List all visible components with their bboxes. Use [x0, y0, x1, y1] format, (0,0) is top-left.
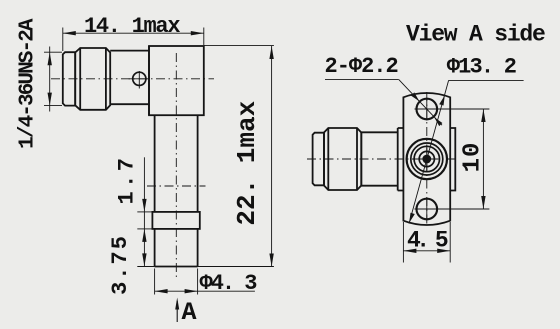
- dim 22.1max arrows: [269, 46, 273, 267]
- flange outline: [403, 93, 450, 225]
- svg-text:14. 1max: 14. 1max: [84, 14, 180, 39]
- dim 14.1max line: [63, 32, 204, 34]
- centerline horizontal axis left view: [51, 78, 214, 80]
- dim 22.1max extension bottom: [198, 266, 274, 268]
- svg-text:Φ13. 2: Φ13. 2: [447, 55, 516, 80]
- svg-text:2-Φ2.2: 2-Φ2.2: [325, 54, 398, 79]
- centerline tube cross: [147, 185, 206, 187]
- dim ring ext bottom: [137, 228, 152, 230]
- coax crosshair: [415, 148, 439, 172]
- centerline vertical axis flange: [426, 92, 428, 227]
- right tab behind flange: [450, 128, 455, 191]
- svg-text:1/4-36UNS-2A: 1/4-36UNS-2A: [17, 18, 40, 149]
- side cap: [313, 133, 324, 186]
- set screw crosshair: [129, 71, 151, 89]
- dim 22.1max line: [271, 46, 273, 267]
- svg-text:22. 1max: 22. 1max: [232, 101, 262, 226]
- dim 10 line: [482, 109, 484, 209]
- A view arrow: [176, 301, 178, 322]
- dim arrows 1.7 3.75: [142, 199, 146, 267]
- tube right edge: [197, 115, 199, 212]
- nut chamfer line right: [105, 48, 107, 110]
- dim 14.1max arrows: [63, 31, 204, 35]
- dim 22.1max extension top: [204, 44, 274, 46]
- left tab behind flange: [398, 128, 404, 191]
- dim phi4.3 arrows: [155, 289, 198, 293]
- dim thread extension top: [44, 51, 62, 53]
- right angle block: [149, 46, 204, 115]
- dim 14.1max extension left: [62, 28, 64, 52]
- tube lower left edge: [154, 229, 156, 267]
- coax circles: [407, 139, 447, 179]
- dim 4.5 arrows: [403, 249, 450, 253]
- dim phi4.3 line: [155, 290, 255, 292]
- set screw circle: [133, 72, 146, 85]
- centerline horizontal axis right view: [307, 158, 458, 160]
- svg-text:1.7: 1.7: [115, 155, 140, 205]
- side nut chamfer lines: [328, 128, 357, 190]
- hole crosshair bottom: [415, 198, 490, 221]
- mounting hole bottom: [417, 199, 438, 220]
- coax center pin: [422, 155, 431, 164]
- dim ring ext top: [137, 211, 152, 213]
- svg-text:View A side: View A side: [406, 22, 545, 48]
- leader phi13.2 underline: [449, 79, 524, 81]
- mounting hole top: [417, 99, 438, 120]
- dim 4.5 ext left: [402, 222, 404, 263]
- dim thread arrows: [48, 52, 52, 105]
- leader 2-phi2.2 arrows: [411, 92, 442, 126]
- nut chamfer line left: [79, 48, 81, 110]
- ring section: [152, 212, 199, 229]
- centerline vertical axis left view: [175, 53, 177, 278]
- connector cap (thread end): [63, 52, 75, 105]
- dim phi4.3 ext right: [197, 269, 199, 295]
- tube lower right edge: [197, 229, 199, 267]
- svg-text:3.75: 3.75: [108, 234, 133, 295]
- dim 4.5 ext right: [449, 222, 451, 263]
- dim 14.1max extension right: [203, 28, 205, 46]
- dim 10 arrows: [481, 109, 485, 209]
- svg-text:10: 10: [459, 142, 486, 173]
- coupling nut: [75, 48, 110, 110]
- leader phi13.2 diagonal: [409, 80, 449, 223]
- tube left edge: [154, 115, 156, 212]
- dim 1.7 / 3.75 vertical line: [143, 157, 145, 266]
- side cylinder: [361, 132, 397, 185]
- dim thread extension bottom: [44, 105, 62, 107]
- leader 2-phi2.2 diagonal: [399, 80, 442, 126]
- hole crosshair top: [415, 98, 490, 121]
- leader phi13.2 arrows: [409, 95, 445, 222]
- dim 4.5 line: [403, 250, 450, 252]
- svg-text:A: A: [182, 298, 197, 327]
- svg-text:4. 5: 4. 5: [407, 228, 448, 254]
- tube bottom edge: [155, 266, 198, 268]
- side nut: [324, 128, 361, 190]
- svg-text:Φ4. 3: Φ4. 3: [200, 271, 258, 296]
- dim thread line: [49, 47, 51, 112]
- leader 2-phi2.2 underline: [325, 79, 399, 81]
- dim phi4.3 ext left: [154, 269, 156, 295]
- dim bottom ext left: [137, 266, 154, 268]
- body cylinder: [110, 51, 149, 105]
